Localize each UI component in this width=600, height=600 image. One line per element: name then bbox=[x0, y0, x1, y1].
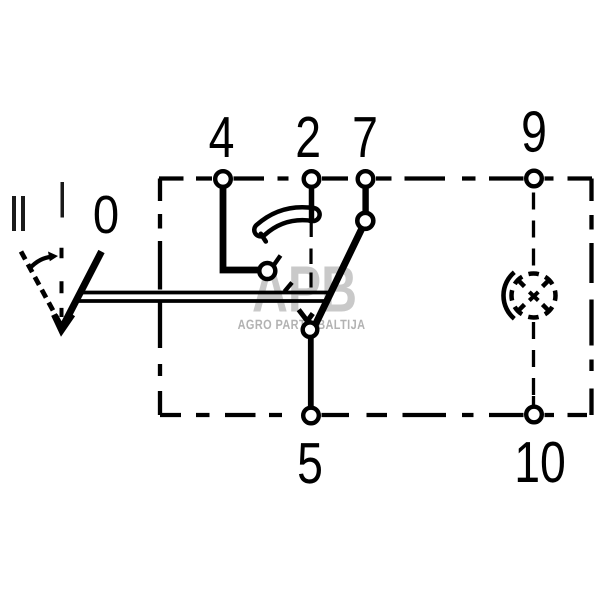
terminal 10 circle bbox=[526, 407, 542, 423]
contact circle above terminal 5 bbox=[303, 322, 318, 337]
dashed link tick lower bbox=[285, 283, 293, 292]
svg-text:0: 0 bbox=[93, 185, 119, 245]
svg-text:5: 5 bbox=[297, 431, 323, 496]
terminal 4 circle bbox=[215, 171, 231, 187]
terminal 7 circle bbox=[358, 171, 374, 187]
lamp X spoke lower-right bbox=[543, 305, 550, 312]
bridge pivot contact circle bbox=[259, 263, 275, 279]
svg-text:4: 4 bbox=[209, 105, 235, 170]
wire: contact line below terminal 2 over bridge bbox=[309, 205, 314, 223]
lever position I dashed lever bbox=[60, 248, 64, 317]
dashed link tick upper bbox=[274, 256, 281, 266]
svg-text:2: 2 bbox=[295, 105, 321, 170]
direction arc arrow bbox=[30, 257, 52, 269]
moving-arm pivot circle bbox=[357, 213, 373, 229]
lever position II dashed lever bbox=[21, 252, 62, 328]
actuator rod upper line bbox=[80, 291, 333, 295]
lamp X spoke lower-left bbox=[517, 305, 524, 312]
lamp reflector arc bbox=[503, 272, 514, 319]
terminal 9 circle bbox=[526, 171, 542, 187]
dashed wire terminal 9 to lamp bbox=[532, 193, 535, 270]
wire: L-shaped conductor from terminal 4 to bridge pivot bbox=[223, 186, 262, 270]
bridge contact tail bbox=[261, 234, 266, 242]
dashed wire lamp to terminal 10 bbox=[532, 322, 535, 406]
label II bbox=[12, 196, 16, 231]
switch body outline left edge (dash-dot) bbox=[158, 179, 162, 416]
switch body outline top edge (dash-dot) bbox=[159, 176, 592, 180]
switch body outline right edge (dash-dot) bbox=[589, 179, 593, 416]
wire stub above terminal 10 bbox=[532, 396, 535, 408]
lamp L (illumination) dashed circle bbox=[512, 274, 556, 318]
terminal 5 circle bbox=[303, 408, 319, 424]
wire: terminal 7 to moving-arm pivot bbox=[362, 184, 368, 216]
lamp center cross bbox=[529, 292, 538, 301]
terminal 2 circle bbox=[304, 171, 320, 187]
lamp X spoke upper-right bbox=[543, 279, 550, 286]
lever (position 0, solid) bbox=[62, 252, 102, 329]
svg-text:10: 10 bbox=[514, 430, 566, 495]
wire: contact 5 to terminal 5 bbox=[308, 335, 314, 409]
lamp X spoke upper-left bbox=[517, 279, 524, 286]
watermark APB logo bbox=[252, 253, 357, 326]
svg-text:7: 7 bbox=[352, 105, 378, 170]
dashed wire below terminal 2 bbox=[309, 249, 312, 265]
switch body outline bottom edge (dash-dot) bbox=[160, 413, 587, 417]
label I bbox=[61, 182, 65, 218]
svg-text:9: 9 bbox=[521, 100, 547, 165]
wire: stub below terminal 2 bbox=[309, 186, 315, 210]
lever arrowhead bbox=[54, 315, 73, 331]
actuator rod lower line bbox=[76, 299, 329, 303]
arrowhead at contact 5 bbox=[299, 310, 313, 321]
movable bridge contact (curved capsule) bbox=[261, 214, 314, 230]
moving contact arm from pivot toward contact 5 bbox=[313, 222, 365, 330]
